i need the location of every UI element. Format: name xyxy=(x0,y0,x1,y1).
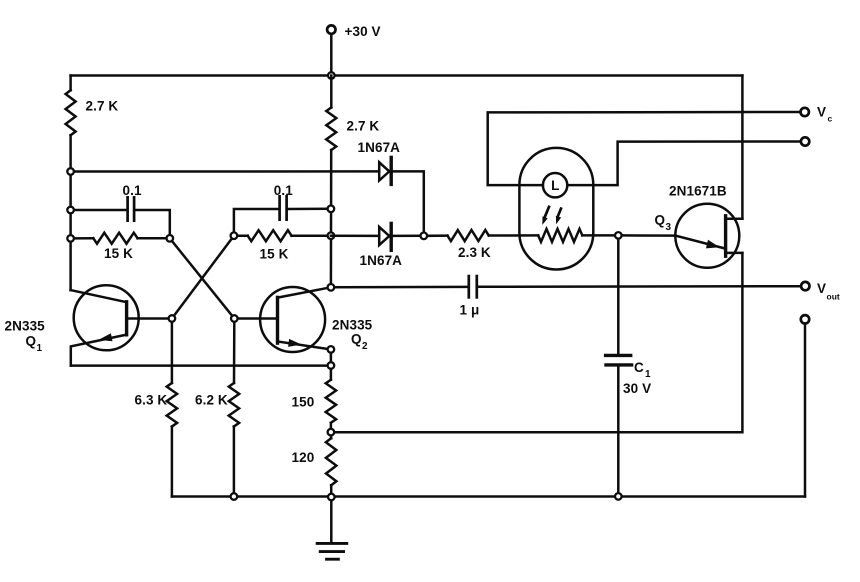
terminal (lower, unlabeled) xyxy=(801,137,809,145)
svg-text:C: C xyxy=(634,360,644,375)
node: 150/120 tap xyxy=(328,429,335,436)
svg-text:2.7 K: 2.7 K xyxy=(86,99,119,114)
terminal +30 V xyxy=(327,25,335,33)
capacitor 0.1 (left) xyxy=(126,196,129,222)
wire: center rail top lead xyxy=(330,76,333,108)
wire: left rail top lead xyxy=(69,76,72,91)
wire: 2.3K left lead xyxy=(428,234,447,237)
wire: Vout line right of 1u cap xyxy=(478,285,801,288)
unijunction transistor Q3 2N1671B xyxy=(675,204,739,268)
Q2 base bar xyxy=(276,297,279,343)
wire: right 0.1 cap left lead xyxy=(234,209,278,236)
svg-text:V: V xyxy=(817,281,826,296)
wire: cross-coupling right-to-Q1 xyxy=(175,239,232,315)
ground symbol xyxy=(330,501,333,542)
wire: Q2 emitter drop xyxy=(330,349,333,379)
wire: right terminal riser xyxy=(804,324,807,497)
Q3 base-1 lead xyxy=(726,252,743,255)
svg-text:2N335: 2N335 xyxy=(5,319,46,334)
svg-text:Q: Q xyxy=(26,334,37,349)
wire: C1 bottom lead xyxy=(617,367,620,497)
svg-text:Q: Q xyxy=(655,213,666,228)
wire: left 15K right lead xyxy=(138,237,170,240)
svg-text:0.1: 0.1 xyxy=(123,183,142,198)
svg-text:2: 2 xyxy=(362,341,368,352)
svg-text:0.1: 0.1 xyxy=(274,183,293,198)
wire: emitter bus xyxy=(71,364,331,367)
node: Q2 base xyxy=(231,315,238,322)
wire: top diode cathode to junction xyxy=(391,171,424,235)
wire: lamp right terminal to lower Vc terminal xyxy=(567,142,801,186)
wire: top +30V supply bus xyxy=(71,74,743,77)
wire: right 0.1 cap right lead xyxy=(288,208,331,211)
diode 1N67A (bottom) xyxy=(379,227,389,245)
Q1 collector lead xyxy=(71,290,127,302)
Q3 base bar xyxy=(724,216,727,256)
wire: +30V terminal stem xyxy=(330,34,333,76)
Q3 emitter line with arrow xyxy=(675,236,723,249)
wire: lamp left terminal to Vc xyxy=(488,112,801,185)
node: right cell output xyxy=(231,232,238,239)
Q1 base bar xyxy=(125,302,128,335)
wire: left 0.1 cap right lead xyxy=(136,210,170,238)
Q1 emitter lead with arrow xyxy=(71,335,127,366)
node: left rail / cap lead xyxy=(67,207,74,214)
svg-text:1N67A: 1N67A xyxy=(358,140,401,155)
wire: node to Q3 emitter xyxy=(623,234,676,237)
wire: B1 feedback to 150/120 divider tap xyxy=(331,253,743,432)
svg-text:V: V xyxy=(817,105,826,120)
svg-text:out: out xyxy=(827,292,840,302)
terminal Vout xyxy=(801,282,809,290)
svg-text:+30 V: +30 V xyxy=(345,24,381,39)
svg-text:1 μ: 1 μ xyxy=(460,303,480,318)
node: emitter bus tap xyxy=(328,362,335,369)
resistor 2.7 K (left) xyxy=(66,90,76,135)
resistor 150 xyxy=(326,380,336,423)
svg-text:2N1671B: 2N1671B xyxy=(669,184,727,199)
wire: tap to 120 xyxy=(330,437,333,439)
wire: Q2 base drop xyxy=(233,323,236,383)
resistor 6.2 K xyxy=(229,383,240,427)
Q2 base lead xyxy=(234,317,277,320)
node: center rail / cap lead xyxy=(328,206,335,213)
node: left rail / 15K xyxy=(67,235,74,242)
wire: cross-coupling left-to-Q2 xyxy=(173,242,232,315)
resistor 15 K (right) xyxy=(248,230,292,241)
capacitor 1u xyxy=(467,275,470,299)
wire: 150 to tap xyxy=(330,423,333,432)
svg-text:6.2 K: 6.2 K xyxy=(195,393,228,408)
wire: 6.2K to bottom rail xyxy=(233,427,236,497)
wire: 120 to ground rail xyxy=(330,485,333,497)
capacitor C1 xyxy=(606,354,631,357)
Q2 collector lead xyxy=(278,287,331,297)
svg-text:1: 1 xyxy=(645,369,651,380)
node: left cell output xyxy=(167,235,174,242)
svg-text:1: 1 xyxy=(37,343,43,354)
wire: Q1 base drop xyxy=(171,323,174,383)
wire: 6.3K to bottom rail xyxy=(171,427,174,497)
Q3 base-2 lead xyxy=(726,218,743,221)
svg-text:c: c xyxy=(828,114,833,124)
transistor Q1 2N335 xyxy=(74,285,139,350)
Q1 base lead xyxy=(127,317,172,320)
svg-text:Q: Q xyxy=(351,332,362,347)
resistor 2.3 K xyxy=(448,230,489,241)
node: ground tap xyxy=(328,494,335,501)
wire: left rail down to Q1 collector xyxy=(69,135,72,290)
svg-text:2N335: 2N335 xyxy=(332,318,373,333)
wire: left 15K left lead xyxy=(71,237,94,240)
diode 1N67A (top) xyxy=(379,162,389,180)
svg-text:120: 120 xyxy=(292,450,315,465)
node: Q1 base xyxy=(169,315,176,322)
svg-text:L: L xyxy=(551,178,559,193)
svg-text:15 K: 15 K xyxy=(104,246,133,261)
photocell-lamp assembly enclosure xyxy=(519,148,593,270)
wire: center rail to Q2 collector xyxy=(330,150,333,287)
photoresistor (inside photocell assembly) xyxy=(538,229,582,242)
node: Q2 emitter xyxy=(328,346,335,353)
resistor 120 xyxy=(326,438,337,485)
node: C1 on rail xyxy=(615,493,622,500)
light arrow 1 xyxy=(544,206,549,219)
wire: B2 riser to top bus xyxy=(741,76,744,219)
wire: bottom diode anode lead xyxy=(331,234,379,237)
wire: 2.3K to photocell xyxy=(489,234,539,237)
wire: cross-coupling feed to top diode (net y=171.5) xyxy=(71,170,380,173)
wire: Vout line left of 1u cap xyxy=(331,286,468,289)
wire: C1 top lead xyxy=(617,240,620,354)
wire: photocell to Q3 base node xyxy=(582,234,618,237)
wire: right 15K leads xyxy=(234,234,248,237)
wire: bottom diode cathode lead xyxy=(391,235,424,238)
node: Q2 collector xyxy=(328,284,335,291)
node: photocell / C1 / Q3 emitter xyxy=(615,232,622,239)
resistor 6.3 K xyxy=(167,383,177,427)
node: 6.2K on rail xyxy=(231,493,238,500)
svg-text:6.3 K: 6.3 K xyxy=(135,393,168,408)
resistor 2.7 K (center) xyxy=(326,108,336,151)
resistor 15 K (left) xyxy=(93,233,137,244)
svg-text:150: 150 xyxy=(292,395,315,410)
capacitor 0.1 (right) xyxy=(278,195,281,221)
svg-text:30 V: 30 V xyxy=(623,381,651,396)
svg-text:2.7 K: 2.7 K xyxy=(347,119,380,134)
junction: +30V on top bus xyxy=(328,72,335,79)
node: center rail / 15K / diode anode xyxy=(328,232,335,239)
node: left rail / diode feed xyxy=(67,168,74,175)
node: diode junction xyxy=(421,233,428,240)
svg-text:3: 3 xyxy=(666,222,672,233)
svg-text:1N67A: 1N67A xyxy=(360,253,403,268)
lamp L xyxy=(543,173,567,197)
svg-text:15 K: 15 K xyxy=(260,247,289,262)
terminal (lower right, unlabeled) xyxy=(801,315,809,323)
wire: bottom ground rail xyxy=(172,495,805,498)
wire: left 0.1 cap left lead xyxy=(71,209,127,212)
svg-text:2.3 K: 2.3 K xyxy=(458,245,491,260)
transistor Q2 2N335 xyxy=(260,287,325,352)
light arrow 2 xyxy=(557,207,561,217)
Q2 emitter lead with arrow xyxy=(278,342,331,350)
terminal Vc xyxy=(801,108,809,116)
